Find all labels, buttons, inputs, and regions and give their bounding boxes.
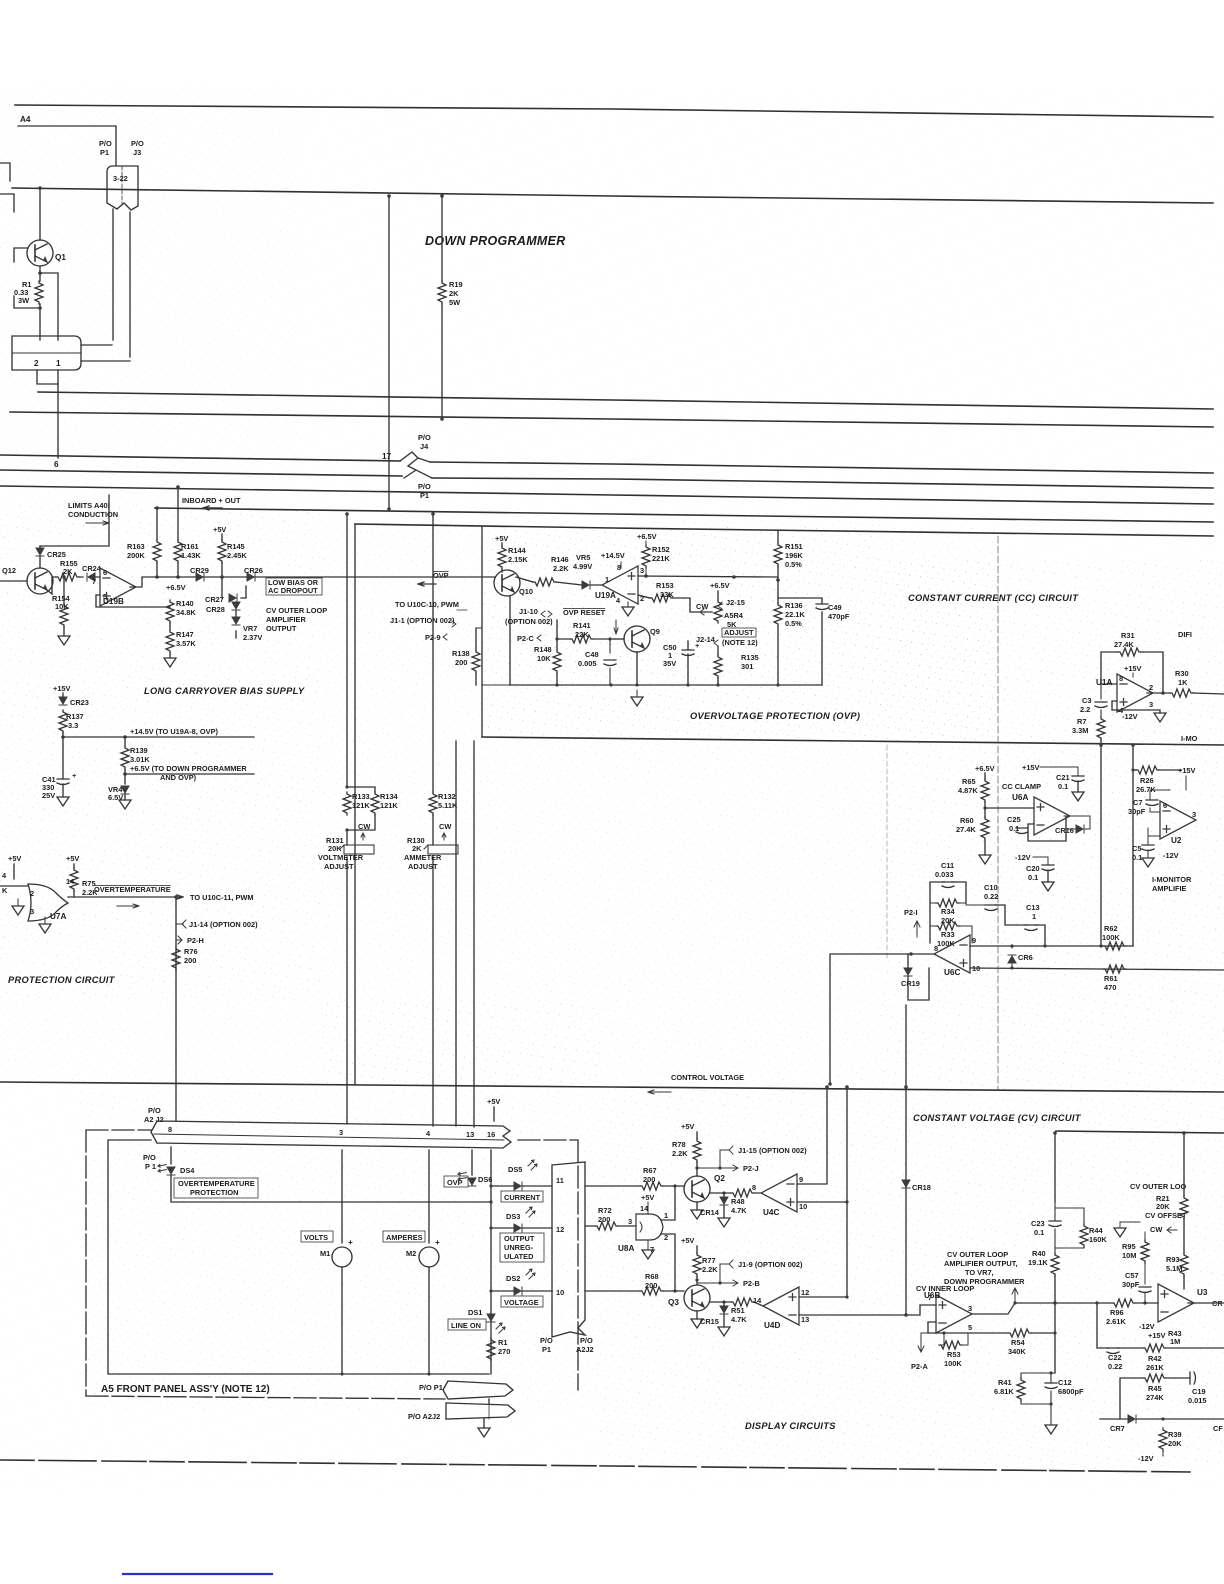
svg-text:8: 8 (617, 563, 621, 572)
svg-text:34.8K: 34.8K (176, 608, 196, 617)
resistor R34 (936, 899, 959, 907)
svg-text:33K: 33K (660, 590, 674, 599)
svg-text:27.4K: 27.4K (956, 825, 976, 834)
svg-text:0.5%: 0.5% (785, 619, 802, 628)
svg-text:200: 200 (643, 1175, 655, 1184)
ground c5 (1142, 858, 1154, 867)
svg-text:270: 270 (498, 1347, 510, 1356)
svg-text:P/O A2J2: P/O A2J2 (408, 1412, 440, 1421)
wire r42 (1166, 1347, 1224, 1349)
resistor R146 (533, 578, 556, 586)
svg-text:0.1: 0.1 (1009, 824, 1019, 833)
wire q10 emitter down (509, 596, 511, 685)
svg-text:30pF: 30pF (1128, 807, 1146, 816)
wire cr7 line (1100, 1418, 1224, 1420)
svg-text:-12V: -12V (1122, 712, 1138, 721)
svg-text:R133: R133 (352, 792, 370, 801)
wire Q1 collector (39, 188, 41, 240)
wire a2j2 gnd (483, 1419, 485, 1428)
svg-text:1: 1 (664, 1211, 668, 1220)
diode CR26 (247, 573, 255, 581)
PROT (0, 854, 258, 1121)
svg-text:TO U10C-10, PWM: TO U10C-10, PWM (395, 600, 459, 609)
wire J3 pins down (113, 209, 130, 357)
resistor R147 (166, 630, 174, 653)
svg-text:U4D: U4D (764, 1321, 780, 1330)
gate U8A (636, 1214, 663, 1240)
capacitor C19 (1190, 1372, 1196, 1384)
svg-text:0.1: 0.1 (1132, 853, 1142, 862)
svg-text:2: 2 (1149, 683, 1153, 692)
wire r148 bottom (556, 673, 558, 685)
svg-text:2.2K: 2.2K (702, 1265, 718, 1274)
svg-text:R62: R62 (1104, 924, 1118, 933)
svg-text:R67: R67 (643, 1166, 657, 1175)
svg-text:3.57K: 3.57K (176, 639, 196, 648)
svg-text:4.7K: 4.7K (731, 1206, 747, 1215)
ground u7a in2 (39, 924, 51, 933)
capacitor C48 (604, 660, 616, 666)
svg-text:C10: C10 (984, 883, 998, 892)
svg-text:U8A: U8A (618, 1244, 634, 1253)
svg-text:U1A: U1A (1096, 678, 1112, 687)
wire +5v stub (0, 864, 28, 886)
wire cr24 to u19b (79, 576, 100, 578)
svg-text:R152: R152 (652, 545, 670, 554)
svg-text:R95: R95 (1122, 1242, 1136, 1251)
node J1-15 (697, 1150, 729, 1168)
wire r135 bottom (717, 678, 719, 685)
svg-text:20K: 20K (1156, 1202, 1170, 1211)
svg-text:R40: R40 (1032, 1249, 1046, 1258)
diode CR25 (36, 548, 44, 556)
label AMPERES box (383, 1231, 425, 1242)
svg-text:+15V: +15V (1148, 1331, 1166, 1340)
diode CR14 (720, 1197, 728, 1205)
svg-text:OVP: OVP (433, 571, 449, 580)
op-amp U4C (761, 1174, 797, 1212)
svg-text:AMPLIFIE: AMPLIFIE (1152, 884, 1187, 893)
meter M1 (332, 1247, 352, 1267)
op-amp U6C (934, 935, 970, 973)
wire r141 (557, 638, 614, 640)
svg-text:4.7K: 4.7K (731, 1315, 747, 1324)
node P2-B (720, 1280, 738, 1286)
wire u8a +5 (647, 1202, 649, 1214)
wire r77 top (696, 1246, 698, 1253)
svg-text:P/O: P/O (418, 433, 431, 442)
capacitor C25 (1016, 828, 1028, 834)
svg-text:CR18: CR18 (912, 1183, 931, 1192)
ground vr4 (119, 800, 131, 809)
svg-text:VOLTMETER: VOLTMETER (318, 853, 364, 862)
svg-text:R34: R34 (941, 907, 955, 916)
wire u6c minus line (970, 945, 1133, 947)
wire bus 17-line (0, 470, 1213, 488)
svg-text:J1-14 (OPTION 002): J1-14 (OPTION 002) (189, 920, 258, 929)
svg-text:R77: R77 (702, 1256, 716, 1265)
svg-text:UNREG-: UNREG- (504, 1243, 534, 1252)
label CURRENT box (501, 1191, 543, 1202)
svg-text:5W: 5W (449, 298, 460, 307)
wire blue mark (123, 1573, 272, 1575)
svg-text:A4: A4 (20, 115, 31, 124)
svg-text:DS6: DS6 (478, 1175, 492, 1184)
resistor R45 (1143, 1374, 1166, 1382)
svg-text:J2-15: J2-15 (726, 598, 745, 607)
wire inboard+out (155, 508, 1213, 522)
svg-text:DS4: DS4 (180, 1166, 195, 1175)
wire cr25 (39, 546, 41, 568)
resistor R141 (570, 635, 593, 643)
svg-text:3W: 3W (18, 296, 29, 305)
wire r144 to q10 (501, 569, 503, 572)
wire cc col 1133 (1132, 745, 1134, 946)
svg-text:200K: 200K (127, 551, 145, 560)
svg-text:9: 9 (972, 936, 976, 945)
svg-text:200: 200 (455, 658, 467, 667)
svg-text:C11: C11 (941, 861, 954, 870)
resistor R78 (693, 1139, 701, 1162)
svg-text:R65: R65 (962, 777, 976, 786)
svg-text:-12V: -12V (1139, 1322, 1155, 1331)
svg-text:6.81K: 6.81K (994, 1387, 1014, 1396)
svg-text:TO VR7,: TO VR7, (965, 1268, 994, 1277)
svg-text:R161: R161 (181, 542, 199, 551)
op-amp U2 (1160, 801, 1196, 839)
svg-text:R153: R153 (656, 581, 674, 590)
resistor R148 (553, 650, 561, 673)
pot R131 (344, 845, 374, 854)
svg-text:P2-H: P2-H (187, 936, 204, 945)
svg-text:LONG CARRYOVER BIAS SUPPLY: LONG CARRYOVER BIAS SUPPLY (144, 686, 305, 696)
resistor R42 (1143, 1344, 1166, 1352)
svg-text:R139: R139 (130, 746, 148, 755)
wire cr14 (723, 1193, 725, 1218)
ground r154 (58, 636, 70, 645)
capacitor C22 (1107, 1348, 1119, 1354)
resistor R137 (59, 710, 67, 733)
resistor R155 (56, 573, 79, 581)
connector right strip (552, 1162, 585, 1337)
wire r75 top (73, 864, 75, 868)
wire c50 (687, 641, 689, 685)
svg-text:470: 470 (1104, 983, 1116, 992)
svg-text:DISPLAY CIRCUITS: DISPLAY CIRCUITS (745, 1421, 836, 1431)
svg-text:U19A: U19A (595, 591, 616, 600)
node dot bus2 (38, 186, 42, 190)
wire p2i arrow (914, 921, 920, 937)
svg-text:AMPLIFIER: AMPLIFIER (266, 615, 306, 624)
svg-text:+: + (348, 1238, 353, 1247)
resistor R7 (1097, 717, 1105, 740)
ground cr15 (718, 1327, 730, 1336)
wire r147 gnd (169, 653, 171, 658)
resistor R151 (774, 543, 782, 566)
svg-text:R1: R1 (498, 1338, 507, 1347)
svg-text:R151: R151 (785, 542, 803, 551)
svg-text:CONDUCTION: CONDUCTION (68, 510, 118, 519)
wire cv arrow (648, 1090, 671, 1094)
wire panel column 474 (473, 741, 475, 1127)
svg-text:A2 J2: A2 J2 (144, 1115, 164, 1124)
resistor R72 (595, 1222, 618, 1230)
op-amp U19A (602, 566, 638, 604)
svg-text:OUTPUT: OUTPUT (266, 624, 297, 633)
ground r60 (979, 855, 991, 864)
wire u4d in12 (799, 1296, 847, 1298)
svg-text:CC CLAMP: CC CLAMP (1002, 782, 1041, 791)
ground ovp (631, 697, 643, 706)
resistor R1 (35, 281, 43, 304)
svg-text:3: 3 (640, 566, 644, 575)
wire u6c plus line (970, 968, 1224, 970)
diode VR4 (121, 786, 129, 794)
svg-text:Q1: Q1 (55, 253, 66, 262)
wire u4c in9 riser (797, 1087, 827, 1184)
wire r65-r60 (984, 802, 986, 817)
svg-text:P2-A: P2-A (911, 1362, 929, 1371)
wire bus 3rd (0, 486, 1213, 504)
svg-text:ADJUST: ADJUST (724, 628, 754, 637)
svg-text:P/O P1: P/O P1 (419, 1383, 443, 1392)
svg-text:A2J2: A2J2 (576, 1345, 594, 1354)
svg-text:ULATED: ULATED (504, 1252, 534, 1261)
svg-text:3: 3 (1192, 810, 1196, 819)
svg-text:3.3M: 3.3M (1072, 726, 1088, 735)
wire u8a gnd (647, 1240, 649, 1250)
svg-text:CR23: CR23 (70, 698, 89, 707)
wire pins down (171, 1147, 491, 1374)
svg-text:0.1: 0.1 (1028, 873, 1038, 882)
wire r33 (930, 926, 972, 943)
svg-text:2K: 2K (449, 289, 459, 298)
svg-text:261K: 261K (1146, 1363, 1164, 1372)
svg-text:2: 2 (30, 889, 34, 898)
wire r78 node (696, 1162, 698, 1176)
wire gnd stubs (18, 899, 45, 924)
capacitor C10 (985, 905, 997, 911)
op-amp U4D (763, 1287, 799, 1325)
svg-text:+14.5V: +14.5V (601, 551, 625, 560)
svg-text:R44: R44 (1089, 1226, 1103, 1235)
svg-text:2.2K: 2.2K (672, 1149, 688, 1158)
node dot 14.5 (61, 735, 65, 739)
svg-text:R134: R134 (380, 792, 399, 801)
wire ovp inner left rail (476, 628, 510, 685)
svg-text:R148: R148 (534, 645, 552, 654)
resistor R31 (1118, 648, 1141, 656)
capacitor C13 (1025, 925, 1037, 931)
svg-text:274K: 274K (1146, 1393, 1164, 1402)
svg-text:R141: R141 (573, 621, 591, 630)
resistor R26 (1136, 766, 1159, 774)
op-amp U6B (936, 1295, 972, 1333)
diode VR5 (582, 581, 590, 589)
wire c5 (1148, 828, 1160, 858)
svg-text:4.99V: 4.99V (573, 562, 592, 571)
wire r31 loop (1101, 652, 1163, 693)
wire ds4 link (171, 1175, 491, 1202)
svg-text:U6C: U6C (944, 968, 960, 977)
svg-text:AMPERES: AMPERES (386, 1233, 423, 1242)
svg-text:14: 14 (753, 1296, 762, 1305)
svg-text:ADJUST: ADJUST (408, 862, 438, 871)
capacitor C57 (1139, 1287, 1151, 1293)
label LINE ON box (448, 1319, 486, 1330)
svg-text:+6.5V: +6.5V (637, 532, 657, 541)
svg-text:OVERVOLTAGE PROTECTION (OVP): OVERVOLTAGE PROTECTION (OVP) (690, 711, 860, 721)
svg-text:22.1K: 22.1K (785, 610, 805, 619)
svg-text:R42: R42 (1148, 1354, 1162, 1363)
ground cr14 (718, 1218, 730, 1227)
svg-text:10: 10 (799, 1202, 807, 1211)
wire r144 top (501, 543, 503, 546)
diode CR19 (904, 968, 912, 976)
op-amp U6A (1034, 797, 1070, 835)
svg-text:3: 3 (628, 1217, 632, 1226)
wire m1 down (341, 1267, 343, 1374)
pot r21 body (1180, 1196, 1188, 1219)
resistor R161 (174, 540, 182, 563)
resistor R135 (714, 655, 722, 678)
wire r137 node (62, 733, 64, 779)
svg-text:20K: 20K (328, 844, 342, 853)
svg-text:CR24: CR24 (82, 564, 102, 573)
svg-text:27.4K: 27.4K (1114, 640, 1134, 649)
wire u3 out (1188, 1302, 1224, 1304)
wire r65 node to u6a (985, 807, 1034, 809)
svg-text:+15V: +15V (1178, 766, 1196, 775)
wire r151 (777, 531, 779, 580)
node J1-14 stub (176, 920, 186, 928)
svg-text:200: 200 (598, 1215, 610, 1224)
wire m2 down (428, 1267, 430, 1374)
svg-text:DOWN PROGRAMMER: DOWN PROGRAMMER (944, 1277, 1025, 1286)
svg-text:8: 8 (1119, 674, 1123, 683)
wire r53 loop (939, 1333, 968, 1345)
wire j4 drop (388, 457, 390, 509)
CC (828, 593, 1224, 1086)
capacitor C50 (682, 650, 694, 656)
svg-text:2K: 2K (63, 567, 73, 576)
wire ovp bottom rail (510, 684, 822, 686)
ground r21 (1114, 1228, 1126, 1237)
wire r30 out (1193, 693, 1224, 694)
ground r147 (164, 658, 176, 667)
svg-text:U2: U2 (1171, 836, 1182, 845)
svg-text:CONTROL VOLTAGE: CONTROL VOLTAGE (671, 1073, 744, 1082)
svg-text:AMPLIFIER OUTPUT,: AMPLIFIER OUTPUT, (944, 1259, 1018, 1268)
svg-text:R51: R51 (731, 1306, 745, 1315)
wire r51 (710, 1302, 763, 1306)
svg-text:R54: R54 (1011, 1338, 1025, 1347)
svg-text:R132: R132 (438, 792, 456, 801)
svg-text:R93: R93 (1166, 1255, 1180, 1264)
svg-text:C5: C5 (1132, 844, 1141, 853)
wire u19b plus input (96, 595, 170, 607)
svg-text:4.87K: 4.87K (958, 786, 978, 795)
diode CR29 (196, 573, 204, 581)
label LOW BIAS box (266, 578, 322, 595)
wire u2 fb (1150, 790, 1170, 812)
capacitor C20 (1042, 865, 1054, 871)
svg-text:DOWN PROGRAMMER: DOWN PROGRAMMER (425, 234, 566, 248)
svg-text:6: 6 (54, 460, 59, 469)
wire u19a minus loop (638, 595, 650, 598)
svg-text:CR28: CR28 (206, 605, 225, 614)
svg-text:2.15K: 2.15K (508, 555, 528, 564)
resistor R41 (1017, 1378, 1025, 1401)
svg-text:P1: P1 (542, 1345, 551, 1354)
svg-text:CURRENT: CURRENT (504, 1193, 541, 1202)
transistor Q2 (684, 1176, 710, 1202)
wire ovpreset arrow (614, 620, 618, 634)
svg-text:+6.5V: +6.5V (975, 764, 995, 773)
svg-text:P/O: P/O (131, 139, 144, 148)
wire bus 2 (12, 188, 1213, 203)
svg-text:INBOARD + OUT: INBOARD + OUT (182, 496, 241, 505)
resistor R138 (472, 650, 480, 673)
wire limits drop (40, 495, 109, 546)
svg-text:20K: 20K (1168, 1439, 1182, 1448)
svg-text:200: 200 (184, 956, 196, 965)
ground a2j2 (478, 1428, 490, 1437)
resistor R51 (731, 1298, 754, 1306)
svg-text:35V: 35V (663, 659, 676, 668)
svg-text:CR29: CR29 (190, 566, 209, 575)
wire cv col 847 (846, 1087, 848, 1202)
wire vert x998 frame (997, 536, 999, 1090)
svg-text:OUTPUT: OUTPUT (504, 1234, 535, 1243)
svg-text:+5V: +5V (681, 1122, 694, 1131)
capacitor C7 (1146, 800, 1158, 806)
node dots on 577 (155, 575, 159, 579)
svg-text:R140: R140 (176, 599, 194, 608)
svg-text:J1-1 (OPTION 002): J1-1 (OPTION 002) (390, 616, 455, 625)
svg-text:C7: C7 (1133, 798, 1142, 807)
wire inner box (108, 1140, 489, 1374)
svg-text:1.43K: 1.43K (181, 551, 201, 560)
diode CR6 (1008, 955, 1016, 963)
svg-text:C25: C25 (1007, 815, 1021, 824)
wire c11 loop (930, 882, 966, 943)
wire r67 (585, 1185, 684, 1187)
PANEL (86, 1097, 594, 1437)
wire overtemp line (68, 895, 183, 899)
wire q3 emitter gnd (696, 1311, 698, 1319)
resistor R40 (1051, 1253, 1059, 1276)
wire cr27 branch (222, 577, 246, 598)
OVP (390, 526, 860, 737)
wire u6b out (972, 1303, 1055, 1314)
wire vr5 to u19a (556, 582, 602, 585)
node P2-J (720, 1165, 738, 1171)
resistor R132 (429, 792, 437, 815)
svg-text:1K: 1K (1178, 678, 1188, 687)
node dot r163 top (155, 506, 159, 510)
svg-text:R137: R137 (66, 712, 84, 721)
svg-text:+6.5V: +6.5V (166, 583, 186, 592)
svg-text:R30: R30 (1175, 669, 1189, 678)
svg-text:CW: CW (1150, 1225, 1162, 1234)
wire r138 (475, 628, 477, 685)
resistor R33 (936, 922, 959, 930)
svg-text:+6.5V (TO DOWN PROGRAMMER: +6.5V (TO DOWN PROGRAMMER (130, 764, 247, 773)
wire A5 box outline (86, 1130, 151, 1396)
svg-text:DIFI: DIFI (1178, 630, 1192, 639)
wire ovp-bottom i-mon (482, 737, 1224, 745)
